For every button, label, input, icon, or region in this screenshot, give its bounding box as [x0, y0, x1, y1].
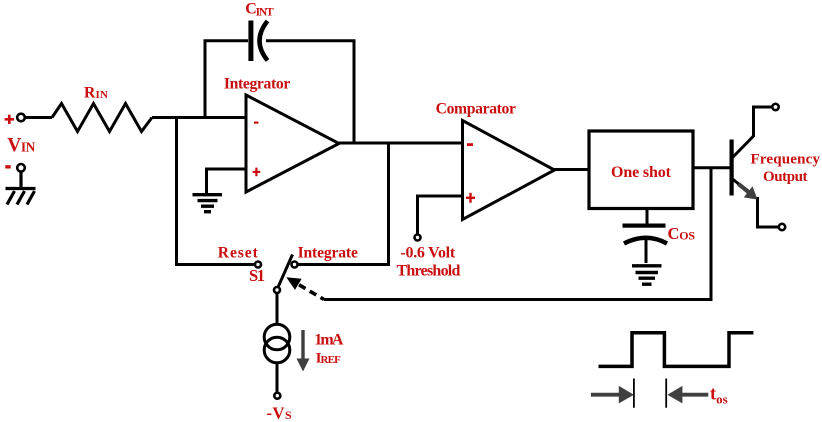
- svg-text:One shot: One shot: [611, 164, 672, 181]
- svg-text:Reset: Reset: [218, 244, 259, 261]
- svg-text:Integrate: Integrate: [298, 244, 358, 261]
- svg-text:Integrator: Integrator: [224, 75, 290, 92]
- svg-text:CINT: CINT: [245, 1, 274, 19]
- svg-text:S1: S1: [249, 266, 265, 285]
- svg-text:Output: Output: [763, 169, 808, 185]
- svg-text:COS: COS: [668, 224, 696, 243]
- svg-text:Frequency: Frequency: [751, 151, 821, 167]
- svg-text:-0.6 Volt: -0.6 Volt: [400, 245, 455, 262]
- svg-text:Threshold: Threshold: [397, 263, 461, 280]
- svg-text:1mA: 1mA: [314, 331, 344, 348]
- svg-text:Comparator: Comparator: [436, 100, 516, 117]
- svg-text:VIN: VIN: [7, 135, 35, 156]
- svg-text:IREF: IREF: [316, 351, 341, 367]
- svg-text:RIN: RIN: [84, 84, 108, 101]
- svg-text:-VS: -VS: [267, 403, 293, 422]
- svg-text:tos: tos: [710, 384, 728, 406]
